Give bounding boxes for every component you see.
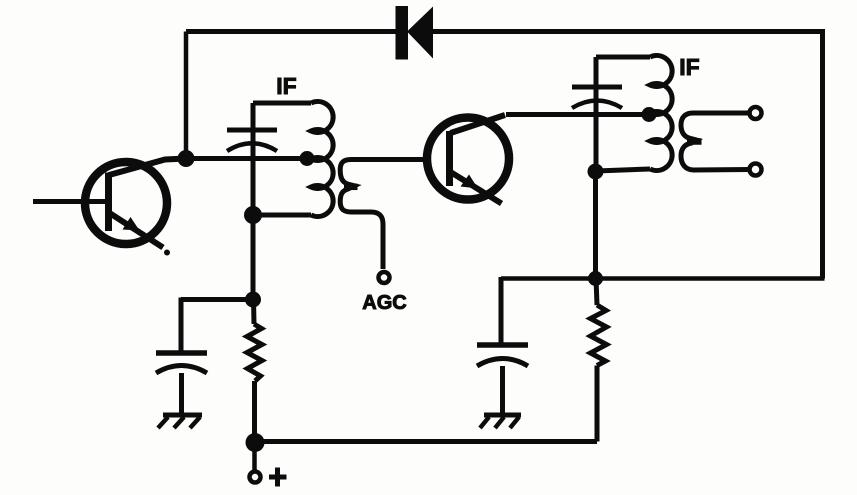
transistor Q1 (1st IF amplifier) [33,159,186,256]
transistor Q2 (2nd IF amplifier) [427,115,509,204]
node G junction dot (C4/R1 tap) [245,292,261,308]
capacitor C2 (T2 tuning capacitor) [572,87,622,108]
node B junction dot (T1 primary tap) [300,151,315,166]
resistor R2 (Q2 emitter resistor) [591,279,607,442]
wire T1 bottom down to node G [251,215,256,300]
label + [269,468,287,487]
resistor R1 (Q1 emitter resistor) [247,300,262,442]
ground G2 [480,415,521,428]
wire node G to C4 [181,297,253,302]
wire bottom rail [254,439,597,444]
capacitor C1 (T1 tuning capacitor) [227,130,277,151]
svg-text:IF: IF [679,54,699,80]
wire left vertical drop from top rail to node A [184,32,189,159]
output terminal bottom [750,164,762,176]
transformer T1 primary winding [253,102,333,217]
output terminal top [750,107,762,119]
node F junction dot (emitter bus) [588,271,603,286]
wire node H to supply terminal [252,442,257,470]
ground G1 [158,415,202,428]
AGC terminal [379,272,390,283]
node E junction dot (T2 primary bottom) [588,164,604,180]
wire Q1 collector to T1 primary [186,156,307,161]
svg-text:AGC: AGC [362,292,406,314]
node A junction dot (Q1 collector) [178,150,195,167]
node H junction dot (bottom rail / supply) [246,433,265,452]
wire down to C3 [499,277,504,345]
supply terminal + [250,472,261,483]
wire top rail right segment [431,29,825,34]
wire horizontal emitter bus [501,276,825,281]
capacitor C3 (right bypass) [477,345,528,415]
svg-text:IF: IF [276,73,296,99]
wire Q2 collector to T2 primary [506,112,649,117]
diode D1 (AGC feedback diode) [396,6,434,60]
wire top rail left segment [186,29,396,34]
node D junction dot (T2 primary tap) [642,107,657,122]
transformer T1 secondary winding [340,160,428,270]
wire right vertical drop from top rail [820,32,825,279]
transformer T2 secondary winding [681,113,750,170]
transformer T2 primary winding [596,56,672,172]
node C junction dot (T1 primary bottom) [244,206,262,224]
wire T2 bottom to node F [593,171,598,279]
wire down to C4 [179,298,184,354]
capacitor C4 (left bypass) [156,353,207,415]
